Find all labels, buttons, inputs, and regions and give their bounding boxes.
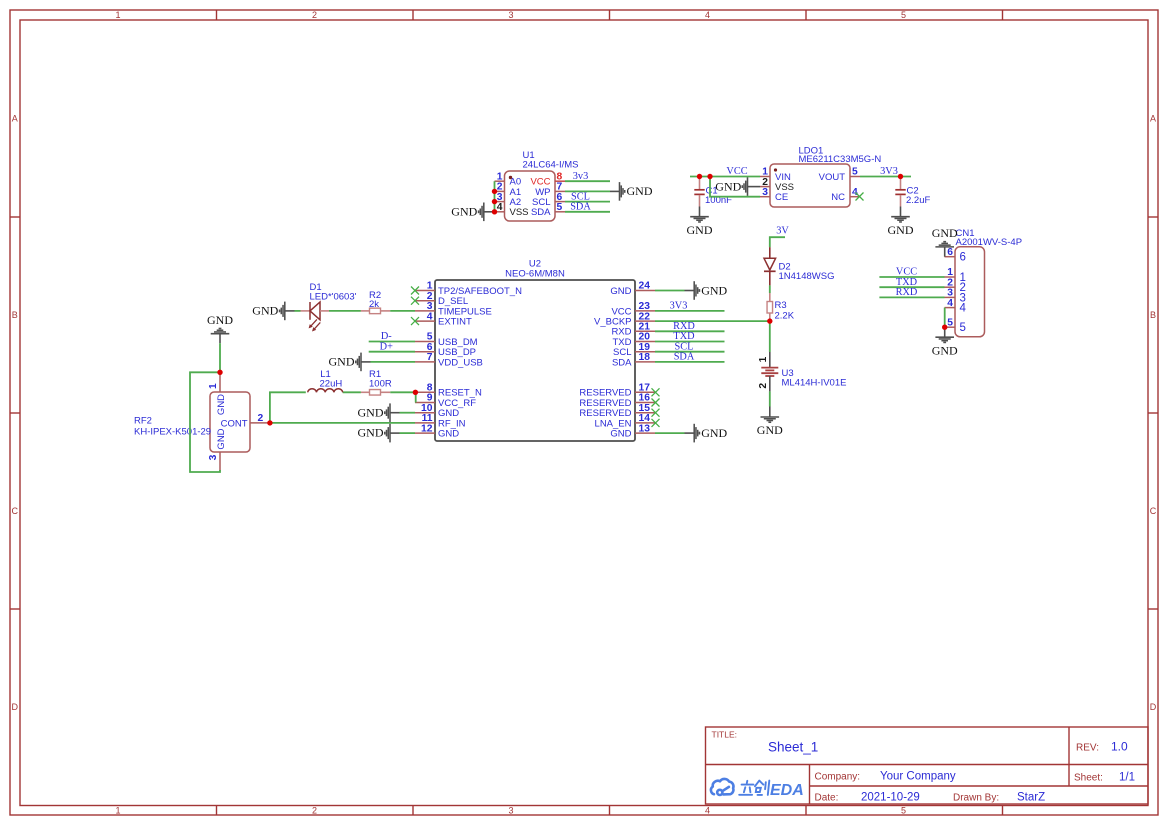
junction xyxy=(767,318,772,323)
svg-text:4: 4 xyxy=(497,202,503,213)
svg-text:2021-10-29: 2021-10-29 xyxy=(861,792,920,804)
junction xyxy=(898,174,903,179)
wire ground to pin12 xyxy=(400,432,416,434)
svg-text:6: 6 xyxy=(947,247,953,258)
ground U2 pin12 xyxy=(358,424,400,443)
svg-text:D: D xyxy=(12,702,19,712)
svg-text:4: 4 xyxy=(852,187,858,198)
svg-text:Company:: Company: xyxy=(815,772,861,783)
svg-text:GND: GND xyxy=(329,355,355,369)
svg-text:Your Company: Your Company xyxy=(880,771,956,783)
svg-text:5: 5 xyxy=(960,322,966,334)
wire L1 to R1 xyxy=(343,391,361,393)
svg-text:VSS: VSS xyxy=(510,207,529,218)
svg-text:GND: GND xyxy=(757,423,783,437)
svg-text:24LC64-I/MS: 24LC64-I/MS xyxy=(523,160,579,171)
svg-text:A2001WV-S-4P: A2001WV-S-4P xyxy=(956,237,1023,248)
no-connect X U2 pin16 xyxy=(652,399,660,407)
svg-text:C: C xyxy=(12,506,19,516)
svg-text:RF2: RF2 xyxy=(134,415,152,426)
svg-text:22uH: 22uH xyxy=(320,378,343,389)
junction xyxy=(492,209,497,214)
wire U2 VCC 3V3 xyxy=(655,310,725,312)
junction xyxy=(697,174,702,179)
no-connect X U2 pin4 xyxy=(411,317,419,325)
svg-text:GND: GND xyxy=(252,304,278,318)
wire USB_DM xyxy=(369,341,415,343)
svg-text:GND: GND xyxy=(932,343,958,357)
wire SDA xyxy=(655,361,725,363)
svg-text:ML414H-IV01E: ML414H-IV01E xyxy=(782,378,847,389)
svg-text:1: 1 xyxy=(115,806,120,816)
no-connect X U2 pin15 xyxy=(652,409,660,417)
inductor L1 22uH xyxy=(308,369,343,392)
svg-text:5: 5 xyxy=(901,10,906,20)
wire U1 pin7 xyxy=(565,190,610,192)
svg-text:3: 3 xyxy=(208,454,219,460)
svg-text:2: 2 xyxy=(758,383,769,389)
wire RF2 junction to L1 xyxy=(270,392,306,423)
junction xyxy=(413,390,418,395)
wire D2 to R3 xyxy=(769,285,771,293)
voltage regulator LDO1 ME6211C33M5G-N xyxy=(760,146,881,208)
svg-text:GND: GND xyxy=(207,313,233,327)
svg-text:CE: CE xyxy=(775,192,788,203)
capacitor C1 100nF xyxy=(694,177,732,207)
wire CE to VCC xyxy=(710,177,760,197)
svg-text:2.2uF: 2.2uF xyxy=(906,195,930,206)
svg-text:2: 2 xyxy=(258,413,264,424)
wire R1 to RESET_N xyxy=(390,391,415,393)
svg-text:A: A xyxy=(1150,114,1156,124)
LED D1 LED*'0603' xyxy=(301,282,357,332)
wire 3V to D2 xyxy=(770,237,785,247)
wire SCL xyxy=(655,351,725,353)
ground below CN1 pin5 xyxy=(932,327,958,357)
svg-text:VOUT: VOUT xyxy=(819,172,846,183)
svg-text:13: 13 xyxy=(639,423,651,434)
svg-text:1: 1 xyxy=(115,10,120,20)
no-connect X U2 pin14 xyxy=(652,419,660,427)
ground U2 pin24 xyxy=(685,281,728,300)
junction xyxy=(492,189,497,194)
svg-text:EDA: EDA xyxy=(770,782,804,799)
svg-text:TITLE:: TITLE: xyxy=(712,730,738,740)
svg-text:VCC: VCC xyxy=(726,166,747,177)
ground VDD_USB xyxy=(329,353,371,372)
svg-text:R3: R3 xyxy=(775,300,787,311)
svg-text:5: 5 xyxy=(852,167,858,178)
junction xyxy=(267,420,272,425)
wire to battery xyxy=(769,321,771,352)
battery U3 ML414H-IV01E xyxy=(758,352,846,391)
wire U2 pin13 to ground xyxy=(655,432,685,434)
svg-text:3: 3 xyxy=(508,806,513,816)
ground U2 pin10 xyxy=(358,403,400,422)
svg-text:GND: GND xyxy=(687,223,713,237)
svg-text:SDA: SDA xyxy=(674,352,695,363)
wire U1 pin5 xyxy=(565,211,610,213)
no-connect X U2 pin2 xyxy=(411,297,419,305)
svg-text:1/1: 1/1 xyxy=(1119,772,1135,784)
wire battery to ground xyxy=(769,391,771,406)
svg-text:6: 6 xyxy=(960,252,966,264)
wire RXD xyxy=(655,330,725,332)
resistor R2 2k xyxy=(361,290,390,314)
ground D1 xyxy=(252,302,294,321)
wire CN1 TXD xyxy=(879,286,944,288)
svg-text:B: B xyxy=(12,310,18,320)
svg-text:GND: GND xyxy=(627,184,653,198)
svg-text:1: 1 xyxy=(208,383,219,389)
svg-text:2k: 2k xyxy=(369,299,379,310)
wire V_BCKP xyxy=(655,320,770,322)
svg-text:GND: GND xyxy=(888,223,914,237)
IC U2 NEO-6M/M8N xyxy=(415,259,655,442)
wire ground to pin10 xyxy=(400,412,416,414)
svg-text:3: 3 xyxy=(508,10,513,20)
ground U2 pin13 xyxy=(685,424,728,443)
svg-text:1N4148WSG: 1N4148WSG xyxy=(779,271,835,282)
svg-text:SDA: SDA xyxy=(531,207,551,218)
svg-text:5: 5 xyxy=(901,806,906,816)
junction xyxy=(217,370,222,375)
wire CN1 RXD xyxy=(879,296,944,298)
svg-text:GND: GND xyxy=(701,283,727,297)
svg-text:GND: GND xyxy=(932,226,958,240)
svg-text:GND: GND xyxy=(438,429,459,440)
logo EasyEDA xyxy=(711,779,734,795)
svg-text:100R: 100R xyxy=(369,378,392,389)
svg-text:4: 4 xyxy=(705,806,710,816)
connector CN1 A2001WV-S-4P xyxy=(945,228,1023,337)
svg-text:4: 4 xyxy=(960,303,967,315)
wire U1 pin8 xyxy=(565,180,610,182)
svg-text:1.0: 1.0 xyxy=(1111,740,1128,754)
svg-text:Drawn By:: Drawn By: xyxy=(953,793,999,804)
svg-text:GND: GND xyxy=(701,426,727,440)
svg-text:5: 5 xyxy=(947,317,953,328)
svg-text:C: C xyxy=(1150,506,1157,516)
svg-text:3v3: 3v3 xyxy=(573,171,588,182)
ground LDO1 VSS xyxy=(715,177,760,196)
svg-text:Date:: Date: xyxy=(815,793,839,804)
svg-text:7: 7 xyxy=(427,352,433,363)
wire CN1 pin4 to pin5 xyxy=(944,308,946,328)
svg-text:D: D xyxy=(1150,702,1157,712)
svg-text:GND: GND xyxy=(216,428,227,449)
wire D1 to R2 xyxy=(329,310,361,312)
ground U1 left xyxy=(451,203,494,222)
svg-text:GND: GND xyxy=(715,179,741,193)
svg-text:3V: 3V xyxy=(776,226,789,237)
svg-text:4: 4 xyxy=(427,311,433,322)
wire loop to RF2 pin3 xyxy=(190,372,220,472)
diode D2 1N4148WSG xyxy=(764,247,834,285)
svg-text:GND: GND xyxy=(358,426,384,440)
svg-text:GND: GND xyxy=(610,286,631,297)
svg-text:1: 1 xyxy=(758,356,769,362)
svg-text:CONT: CONT xyxy=(221,418,248,429)
svg-text:24: 24 xyxy=(639,281,651,292)
svg-text:GND: GND xyxy=(610,429,631,440)
junction xyxy=(707,174,712,179)
svg-text:2.2K: 2.2K xyxy=(775,311,795,322)
resistor R1 100R xyxy=(361,369,392,395)
ground below U3 xyxy=(757,407,783,438)
IC U1 24LC64-I/MS xyxy=(495,150,579,221)
svg-text:SDA: SDA xyxy=(612,357,632,368)
capacitor C2 2.2uF xyxy=(895,177,930,207)
wire ground to VDD_USB xyxy=(371,361,416,363)
ground below C2 xyxy=(888,207,914,237)
svg-text:4: 4 xyxy=(947,298,953,309)
svg-text:18: 18 xyxy=(639,352,651,363)
svg-text:ME6211C33M5G-N: ME6211C33M5G-N xyxy=(799,154,882,165)
svg-text:5: 5 xyxy=(557,202,563,213)
svg-text:3V3: 3V3 xyxy=(670,301,688,312)
wire U2 pin24 to ground xyxy=(655,290,685,292)
wire ground to D1 xyxy=(295,310,301,312)
no-connect X U2 pin17 xyxy=(652,388,660,396)
svg-text:3: 3 xyxy=(762,187,768,198)
svg-text:VDD_USB: VDD_USB xyxy=(438,357,483,368)
svg-text:12: 12 xyxy=(421,423,433,434)
junction xyxy=(942,325,947,330)
svg-text:StarZ: StarZ xyxy=(1017,792,1045,804)
wire ground to junction xyxy=(219,343,221,372)
wire VOUT 3V3 xyxy=(860,176,911,178)
ground U1 right xyxy=(610,182,653,201)
wire TXD xyxy=(655,341,725,343)
title block xyxy=(706,727,1149,804)
ground above CN1 pin6 xyxy=(932,226,958,257)
svg-text:SDA: SDA xyxy=(570,202,591,213)
ground above RF2 xyxy=(207,313,233,343)
svg-text:LED*'0603': LED*'0603' xyxy=(310,292,357,303)
wire CN1 VCC xyxy=(879,276,944,278)
wire RF_IN xyxy=(270,422,415,424)
svg-text:RXD: RXD xyxy=(896,287,918,298)
wire RESET_N to VCC_RF xyxy=(415,392,417,402)
svg-text:4: 4 xyxy=(705,10,710,20)
ground below C1 xyxy=(687,207,713,237)
svg-text:Sheet_1: Sheet_1 xyxy=(768,740,818,755)
no-connect X U2 pin1 xyxy=(411,287,419,295)
svg-text:3V3: 3V3 xyxy=(880,166,898,177)
junction xyxy=(492,199,497,204)
svg-text:A: A xyxy=(12,114,18,124)
resistor R3 2.2K xyxy=(767,293,795,322)
svg-text:B: B xyxy=(1150,310,1156,320)
svg-text:GND: GND xyxy=(358,405,384,419)
no-connect X LDO1 pin4 xyxy=(856,193,864,201)
svg-text:2: 2 xyxy=(312,806,317,816)
svg-text:Sheet:: Sheet: xyxy=(1074,773,1103,784)
svg-text:GND: GND xyxy=(451,204,477,218)
svg-text:GND: GND xyxy=(216,394,227,415)
svg-text:2: 2 xyxy=(312,10,317,20)
svg-text:KH-IPEX-K501-29: KH-IPEX-K501-29 xyxy=(134,426,211,437)
wire U1 pins1-4 bus xyxy=(494,181,496,212)
svg-text:NEO-6M/M8N: NEO-6M/M8N xyxy=(505,269,565,280)
wire VCC xyxy=(690,176,760,178)
svg-text:EXTINT: EXTINT xyxy=(438,317,472,328)
wire R2 to U2 pin3 xyxy=(390,310,415,312)
connector RF2 KH-IPEX-K501-29 xyxy=(134,373,268,471)
wire U1 pin6 xyxy=(565,201,610,203)
svg-text:REV:: REV: xyxy=(1076,743,1099,754)
svg-text:NC: NC xyxy=(831,192,845,203)
wire USB_DP xyxy=(369,351,415,353)
svg-text:D+: D+ xyxy=(380,341,393,352)
